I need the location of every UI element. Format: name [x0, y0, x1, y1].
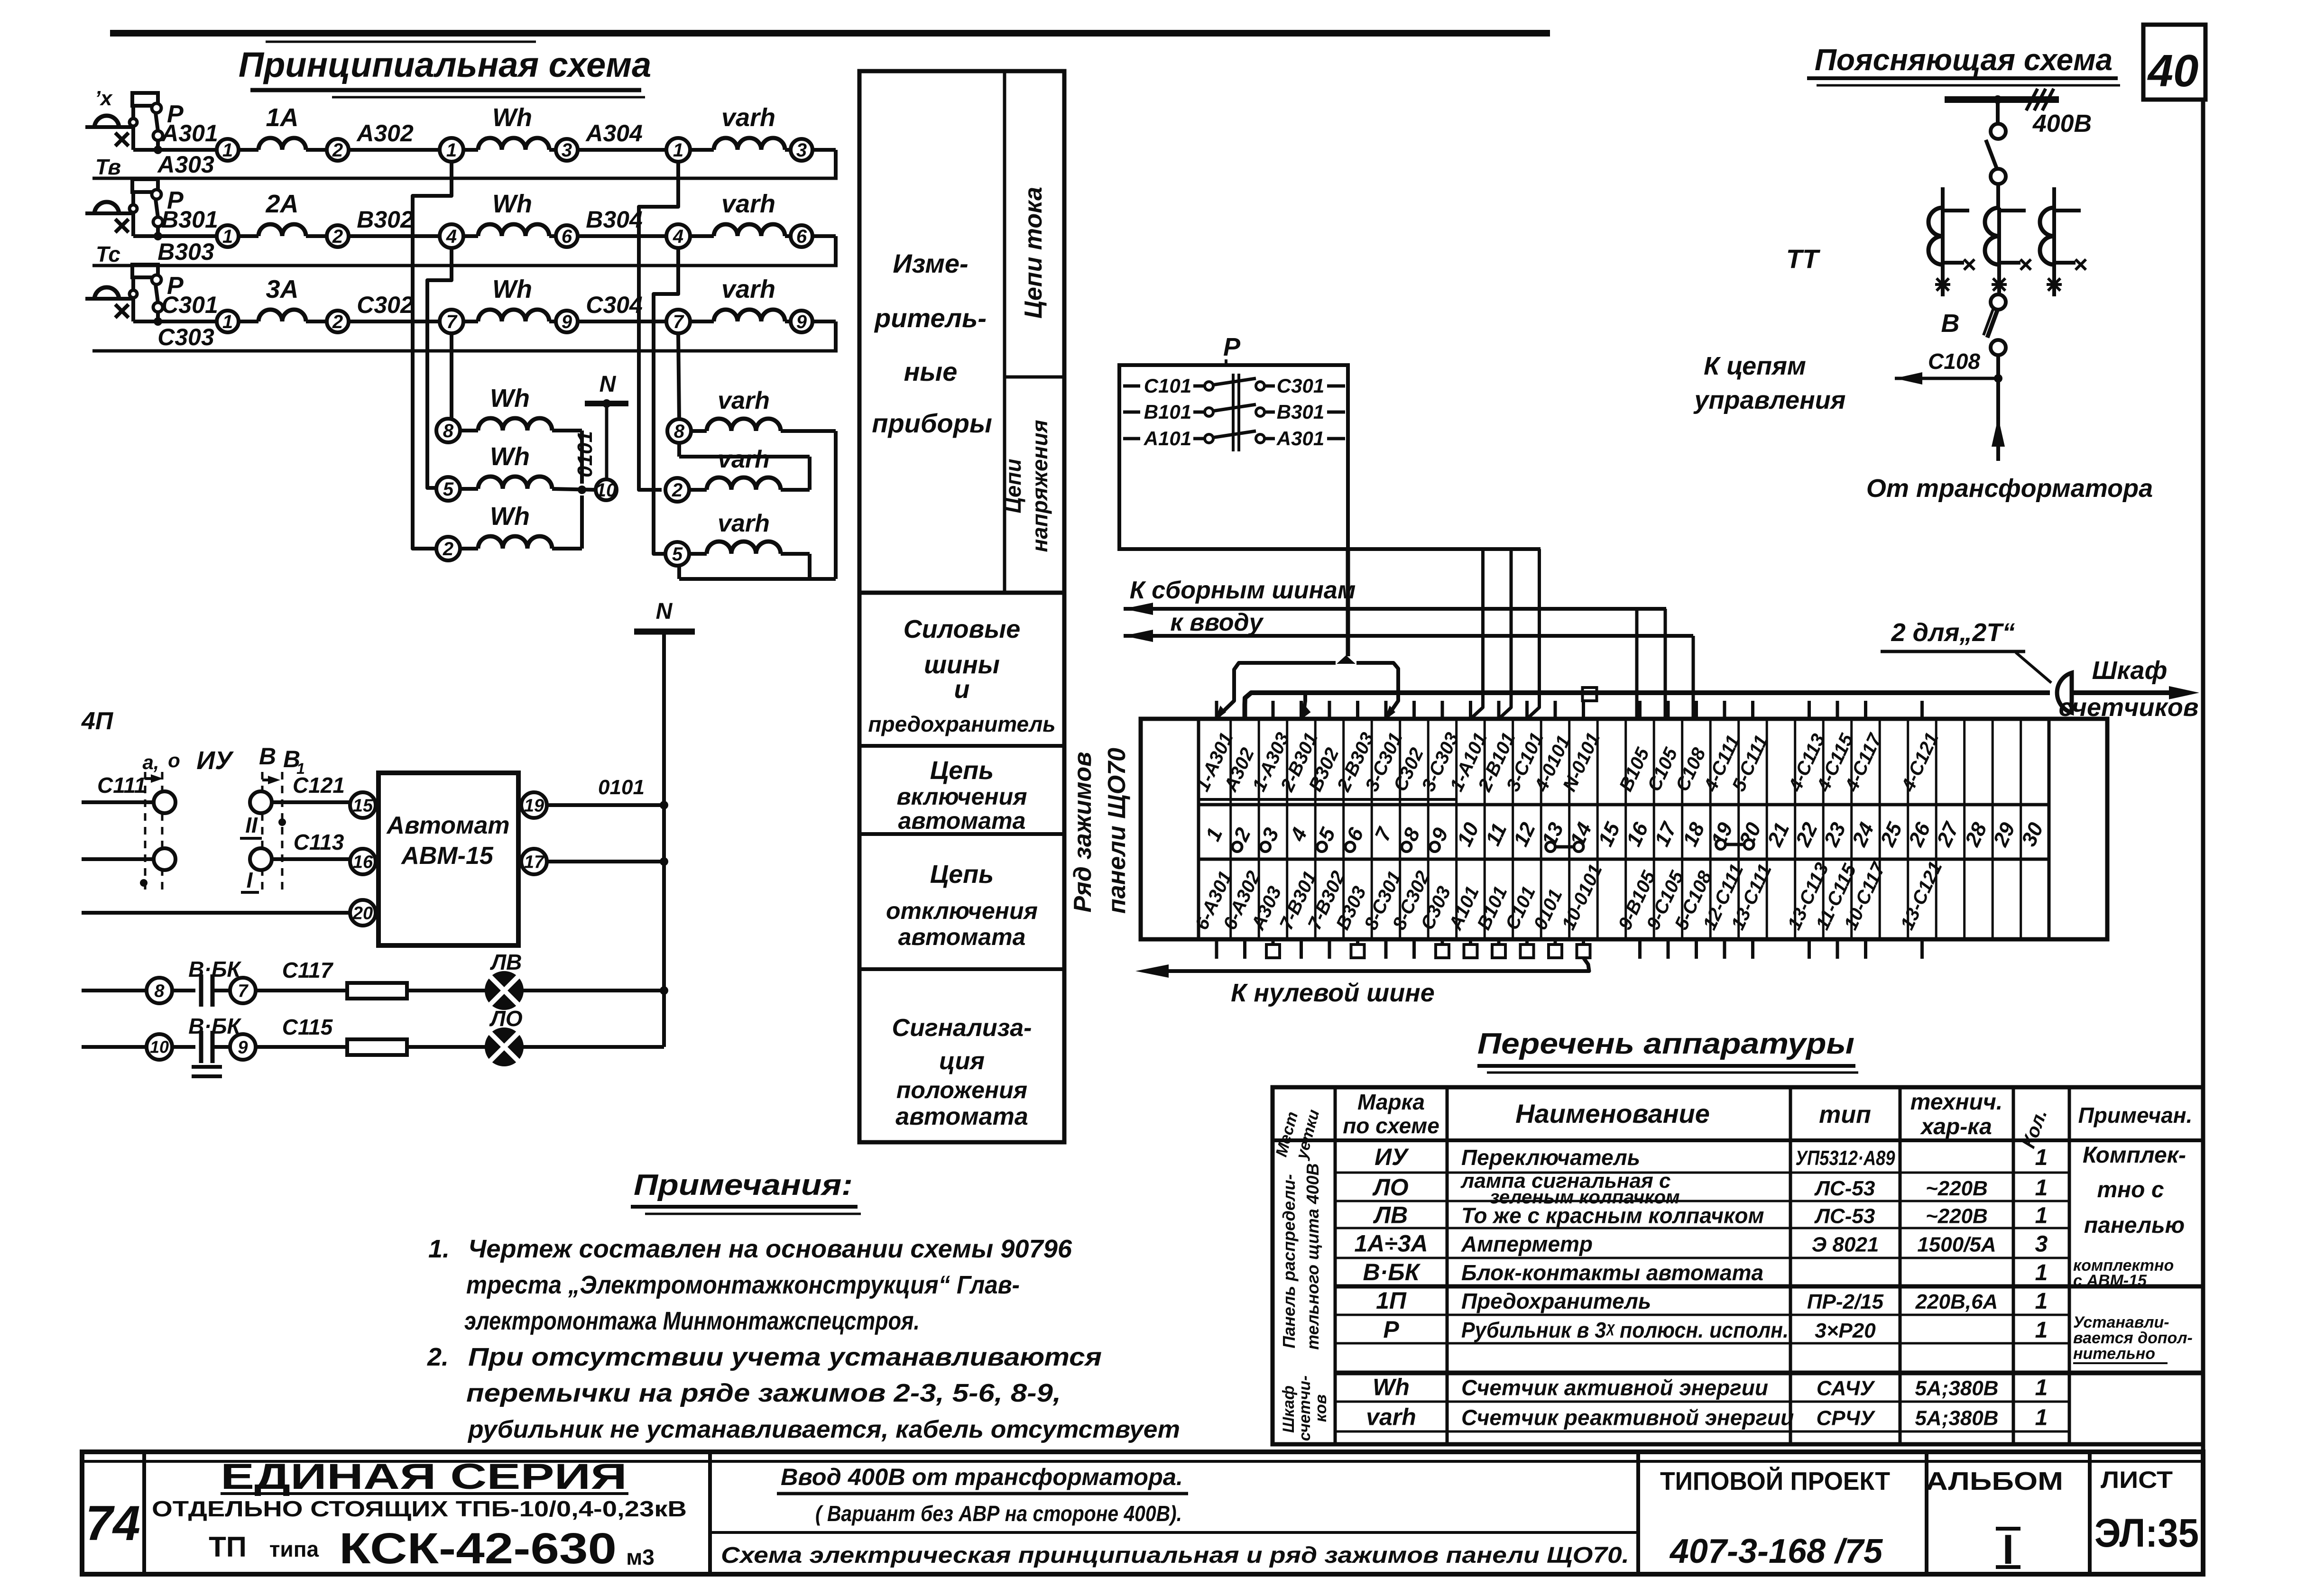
svg-text:Цепи: Цепи: [1001, 459, 1025, 513]
svg-text:2: 2: [332, 312, 343, 332]
switch contact circle row I right: [250, 848, 272, 870]
svg-text:1: 1: [222, 226, 233, 247]
wire С113 to terminal 16: [272, 857, 350, 861]
svg-text:Автомат: Автомат: [386, 812, 509, 839]
svg-text:по схеме: по схеме: [1343, 1113, 1439, 1138]
neutral bus N of control circuits: [634, 629, 695, 635]
svg-text:Рубильник в 3ᵡ полюсн. исполн.: Рубильник в 3ᵡ полюсн. исполн.: [1461, 1318, 1789, 1342]
svg-text:счетчиков: счетчиков: [2059, 693, 2199, 722]
svg-text:3: 3: [562, 140, 572, 161]
svg-text:ЛВ: ЛВ: [490, 950, 522, 974]
terminal circle 3 (varh output): [791, 139, 812, 161]
svg-text:Примечан.: Примечан.: [2078, 1103, 2193, 1128]
fuse of lamp ЛВ: [347, 983, 407, 999]
varh 8 lower stub and cross link: [677, 443, 681, 457]
svg-text:Wh: Wh: [492, 103, 532, 132]
switch box Р (рубильник): [1119, 365, 1348, 549]
equipment table row lines: [1335, 1172, 2069, 1174]
junction of Wh outputs: [578, 486, 586, 494]
svg-text:1: 1: [2035, 1145, 2048, 1170]
svg-text:ЕДИНАЯ СЕРИЯ: ЕДИНАЯ СЕРИЯ: [221, 1457, 627, 1497]
wire entry arrows at terminals 1 4 7: [1215, 706, 1226, 721]
svg-text:3×Р20: 3×Р20: [1815, 1319, 1876, 1342]
svg-text:В: В: [1941, 309, 1960, 338]
svg-text:ЭЛ:35: ЭЛ:35: [2094, 1511, 2199, 1555]
terminal circle 8: [147, 978, 172, 1003]
svg-text:ТИПОВОЙ ПРОЕКТ: ТИПОВОЙ ПРОЕКТ: [1660, 1467, 1890, 1495]
svg-text:0101: 0101: [573, 431, 597, 477]
svg-text:Счетчик активной энергии: Счетчик активной энергии: [1461, 1376, 1768, 1400]
svg-text:В304: В304: [586, 206, 643, 233]
svg-text:6: 6: [796, 226, 807, 247]
svg-text:Тс: Тс: [96, 242, 120, 266]
svg-text:АВМ-15: АВМ-15: [400, 842, 494, 870]
neutral terminal circle 10: [596, 479, 617, 500]
jumper link terminals 19-20: [1716, 840, 1725, 849]
svg-text:Wh: Wh: [490, 384, 530, 413]
svg-text:2: 2: [672, 480, 683, 501]
svg-text:положения: положения: [896, 1077, 1027, 1103]
phase row 2А: incoming feeder with CT hook: [85, 211, 134, 215]
svg-text:2 для„2Т“: 2 для„2Т“: [1891, 618, 2015, 647]
svg-text:3А: 3А: [266, 275, 298, 303]
svg-text:От трансформатора: От трансформатора: [1866, 474, 2153, 503]
svg-text:8: 8: [443, 421, 454, 441]
switch pole С101—С301: [1123, 385, 1140, 388]
terminal circle 9: [230, 1034, 256, 1060]
terminal circle 1: [217, 139, 239, 161]
svg-text:40: 40: [2147, 46, 2199, 96]
svg-text:Наименование: Наименование: [1515, 1099, 1710, 1128]
svg-text:N: N: [656, 599, 673, 624]
switch contact circle row II left: [154, 791, 175, 813]
main current wire of row 1А: [133, 148, 217, 152]
svg-text:ЛС-53: ЛС-53: [1814, 1177, 1875, 1200]
svg-text:При отсутствии учета устанавли: При отсутствии учета устанавливаются: [468, 1343, 1102, 1371]
svg-text:ʼх: ʼх: [95, 87, 113, 110]
terminal circle 7 (varh input): [666, 310, 690, 333]
signal lamp circuit ЛО (breaker open): [82, 1045, 147, 1049]
varh return wire to bus of row 1А: [812, 148, 836, 152]
node С108 to control circuits: [1996, 355, 2000, 378]
svg-text:ЛО: ЛО: [1372, 1174, 1408, 1201]
terminal circle 4 (varh input): [666, 224, 690, 248]
measuring-devices classification box: [859, 71, 1064, 1142]
svg-text:2: 2: [332, 140, 343, 161]
loom branch to terminal 4: [1303, 693, 1306, 716]
svg-text:СРЧУ: СРЧУ: [1816, 1407, 1875, 1430]
svg-text:ОТДЕЛЬНО СТОЯЩИХ ТПБ-10/0,4-0,: ОТДЕЛЬНО СТОЯЩИХ ТПБ-10/0,4-0,23кВ: [152, 1496, 687, 1521]
svg-text:407-3-168 /75: 407-3-168 /75: [1669, 1532, 1883, 1570]
svg-text:varh: varh: [721, 275, 775, 303]
svg-text:м3: м3: [626, 1545, 655, 1569]
svg-text:1: 1: [446, 140, 457, 161]
svg-text:Схема электрическая принципиал: Схема электрическая принципиальная и ряд…: [721, 1543, 1629, 1568]
svg-text:А101: А101: [1144, 427, 1191, 449]
svg-text:1: 1: [2035, 1175, 2048, 1201]
svg-text:varh: varh: [721, 103, 775, 132]
return bus wire А303: [92, 177, 838, 180]
svg-text:1500/5А: 1500/5А: [1917, 1233, 1996, 1257]
svg-text:varh: varh: [718, 510, 770, 537]
svg-text:хар-ка: хар-ка: [1919, 1114, 1992, 1139]
svg-text:С301: С301: [161, 292, 218, 318]
terminal strip band lines: [1199, 798, 1457, 801]
svg-text:А304: А304: [585, 120, 643, 147]
svg-text:Wh: Wh: [490, 502, 530, 531]
svg-text:5: 5: [672, 544, 683, 565]
switch travel arrows: [145, 777, 157, 780]
svg-text:о: о: [168, 749, 180, 771]
jumper link terminals 13-14: [1546, 842, 1555, 852]
wire from circle 4 row B to Wh meter bank (jog via x=901): [427, 248, 452, 488]
terminal circle 10: [147, 1034, 172, 1060]
junction dot below left dashed line: [140, 879, 148, 887]
neutral bus N above circle 10: [585, 401, 628, 406]
wire С115: [256, 1045, 347, 1049]
svg-text:С108: С108: [1928, 349, 1980, 374]
svg-text:треста „Электромонтажконструкц: треста „Электромонтажконструкция“ Глав-: [466, 1271, 1020, 1299]
svg-text:9: 9: [562, 312, 572, 332]
svg-text:1А÷3А: 1А÷3А: [1354, 1230, 1428, 1257]
svg-text:электромонтажа Минмонтажспецст: электромонтажа Минмонтажспецстроя.: [464, 1307, 920, 1335]
terminal circle 20: [350, 900, 376, 926]
svg-text:10: 10: [596, 480, 617, 501]
svg-text:4П: 4П: [81, 707, 114, 735]
svg-text:ПР-2/15: ПР-2/15: [1807, 1290, 1884, 1313]
switch pole А101—А301: [1123, 437, 1140, 440]
svg-text:а,: а,: [142, 751, 159, 773]
svg-text:2: 2: [443, 539, 453, 560]
svg-text:20: 20: [352, 903, 373, 923]
square hooks below terminals 3 6 9 10 11 12 13 14: [1266, 945, 1280, 958]
equipment table column lines: [1334, 1087, 1337, 1444]
svg-text:Панель распредели-: Панель распредели-: [1279, 1174, 1299, 1348]
fuse holder and knife switch Р of row 3А: [131, 299, 135, 321]
svg-text:Р: Р: [1223, 333, 1241, 361]
wire from circle 7 row C down to Wh meter 8: [450, 333, 453, 419]
svg-text:3: 3: [2035, 1232, 2048, 1257]
svg-text:1: 1: [2035, 1405, 2048, 1431]
svg-text:Поясняющая схема: Поясняющая схема: [1815, 43, 2113, 77]
switch contact circle row II right: [250, 791, 272, 813]
svg-text:С301: С301: [1277, 375, 1324, 397]
line К сборным шинам: [1124, 607, 1666, 611]
sheet top border line: [110, 30, 1550, 37]
svg-text:varh: varh: [721, 190, 775, 218]
wires from Р box to terminals 10-12 (А101 В101 С101): [1119, 547, 1541, 551]
svg-text:Ряд зажимов: Ряд зажимов: [1069, 752, 1097, 912]
changeover switch ИУ dashed lines: [144, 772, 147, 890]
svg-text:ИУ: ИУ: [196, 746, 234, 775]
terminal circle 16: [350, 849, 376, 874]
svg-text:Принципиальная схема: Принципиальная схема: [239, 45, 651, 84]
terminal circle 7 (Wh input): [440, 310, 463, 333]
svg-text:К нулевой шине: К нулевой шине: [1231, 979, 1435, 1007]
svg-text:типа: типа: [269, 1537, 319, 1561]
svg-text:тип: тип: [1819, 1101, 1871, 1128]
svg-text:В: В: [259, 743, 276, 770]
svg-text:ТП: ТП: [209, 1531, 247, 1563]
svg-text:включения: включения: [896, 783, 1027, 810]
svg-text:тельного щита 400В: тельного щита 400В: [1303, 1163, 1322, 1350]
feed loom from Р box to terminals 1-9: [1346, 549, 1350, 656]
terminal circle 1: [217, 225, 239, 247]
svg-text:шины: шины: [924, 651, 1000, 679]
section: Цепь включения автомата: [859, 832, 1064, 836]
signal lamp circuit ЛВ (breaker closed): [82, 989, 147, 992]
svg-text:5А;380В: 5А;380В: [1915, 1407, 1998, 1430]
svg-text:В301: В301: [1277, 401, 1324, 423]
svg-text:перемычки на ряде зажимов 2-3,: перемычки на ряде зажимов 2-3, 5-6, 8-9,: [466, 1379, 1061, 1407]
terminal circle 4 (Wh input): [440, 224, 463, 248]
wire from circle 1 row A varh to varh bank (jog via x=1347): [639, 162, 678, 490]
svg-text:С101: С101: [1144, 375, 1191, 397]
svg-text:Переключатель: Переключатель: [1461, 1145, 1640, 1170]
svg-text:Цепь: Цепь: [930, 756, 994, 785]
svg-text:19: 19: [524, 796, 544, 816]
svg-text:16: 16: [353, 852, 373, 872]
busbar 400В: [1945, 96, 2059, 103]
svg-text:ция: ция: [939, 1047, 985, 1075]
svg-text:С111: С111: [97, 773, 146, 798]
svg-text:~220В: ~220В: [1926, 1205, 1988, 1228]
svg-text:Р: Р: [1383, 1316, 1399, 1343]
svg-text:1: 1: [2035, 1376, 2048, 1401]
sheet right border line: [2201, 100, 2205, 1452]
phase row 3А: incoming feeder with CT hook: [85, 297, 134, 301]
svg-text:ритель-: ритель-: [874, 303, 987, 333]
wire 0101 from terminal 19 to neutral rail: [547, 803, 664, 807]
svg-text:В·БК: В·БК: [1363, 1259, 1421, 1285]
section: Силовые шины и предохранитель: [859, 744, 1064, 748]
svg-text:технич.: технич.: [1910, 1090, 2002, 1115]
varh meter coil with terminal 2: [665, 478, 689, 502]
svg-text:панели ЩО70: панели ЩО70: [1103, 748, 1131, 914]
svg-text:В303: В303: [157, 238, 214, 265]
Wh meter coil with terminal 2: [436, 537, 460, 560]
svg-text:автомата: автомата: [895, 1103, 1028, 1130]
svg-text:Комплек-: Комплек-: [2083, 1143, 2186, 1168]
terminal circle 2: [327, 225, 349, 247]
svg-text:1: 1: [222, 312, 233, 332]
svg-text:Марка: Марка: [1357, 1090, 1425, 1114]
terminal circle 2: [327, 139, 349, 161]
svg-text:В301: В301: [161, 206, 218, 233]
svg-text:ЛС-53: ЛС-53: [1814, 1205, 1875, 1228]
terminal strip outer box: [1141, 719, 2107, 939]
varh return wire to bus of row 3А: [812, 320, 836, 323]
terminal circle 7: [230, 978, 256, 1003]
switch contact circle row I left: [154, 848, 175, 870]
svg-text:Сигнализа-: Сигнализа-: [892, 1014, 1032, 1042]
svg-text:Изме-: Изме-: [893, 248, 968, 278]
svg-text:0101: 0101: [598, 776, 645, 799]
svg-text:9: 9: [238, 1037, 248, 1057]
svg-text:УП5312·А89: УП5312·А89: [1796, 1147, 1895, 1170]
connector symbol to meter cabinet: [2057, 673, 2072, 713]
section: Цепь отключения автомата: [859, 967, 1064, 971]
svg-text:нительно: нительно: [2073, 1345, 2155, 1363]
terminal circle 6 (varh output): [791, 225, 812, 247]
varh meter coil with terminal 8: [667, 419, 691, 443]
svg-text:А301: А301: [160, 120, 218, 147]
terminal circle 9 (varh output): [791, 311, 812, 332]
wire С117: [256, 989, 347, 992]
svg-text:1: 1: [2035, 1318, 2048, 1343]
breaker В below transformers: [1997, 208, 2001, 294]
svg-text:~220В: ~220В: [1926, 1177, 1988, 1200]
svg-text:Силовые: Силовые: [904, 615, 1021, 643]
wire from circle 7 row C varh down to varh meter 8: [678, 333, 679, 419]
svg-text:В101: В101: [1144, 401, 1191, 423]
svg-text:ков: ков: [1312, 1394, 1330, 1422]
svg-text:автомата: автомата: [898, 807, 1026, 834]
svg-text:5А;380В: 5А;380В: [1915, 1377, 1998, 1400]
svg-text:ТТ: ТТ: [1786, 244, 1821, 274]
terminal circle 1 (Wh input): [440, 138, 463, 162]
junction dot on В1 dashed line: [278, 818, 286, 826]
wire from terminal 17 to neutral rail: [547, 860, 664, 863]
svg-text:Шкаф: Шкаф: [2092, 656, 2168, 685]
fuse of lamp ЛО: [347, 1039, 407, 1055]
svg-text:400В: 400В: [2032, 110, 2092, 138]
svg-text:С115: С115: [282, 1015, 333, 1039]
svg-text:к вводу: к вводу: [1170, 609, 1264, 636]
svg-text:Цепь: Цепь: [930, 860, 994, 889]
svg-text:Wh: Wh: [490, 442, 530, 471]
terminal circle 15: [350, 792, 376, 818]
svg-text:4: 4: [673, 226, 683, 247]
svg-text:1: 1: [2035, 1289, 2048, 1314]
divider of current/voltage circuits column: [1003, 71, 1006, 593]
line к вводу: [1124, 634, 1693, 638]
svg-text:8: 8: [154, 981, 165, 1001]
wire С121 from switch to terminal 15: [272, 800, 350, 804]
varh return wire to bus of row 2А: [812, 234, 836, 238]
svg-text:Блок-контакты автомата: Блок-контакты автомата: [1461, 1260, 1763, 1285]
title block cell dividers: [142, 1452, 146, 1574]
svg-text:( Вариант без АВР на сторон: ( Вариант без АВР на стороне 400В).: [815, 1501, 1182, 1526]
svg-text:1: 1: [222, 140, 233, 161]
terminal circle 6 (Wh output): [556, 225, 578, 247]
svg-text:varh: varh: [718, 446, 770, 473]
title block outer box: [82, 1452, 2203, 1574]
wire stubs below terminal strip: [1215, 939, 1218, 959]
svg-text:1: 1: [2035, 1203, 2048, 1229]
svg-text:Амперметр: Амперметр: [1461, 1232, 1593, 1257]
vertical neutral rail 0101: [662, 632, 666, 1047]
svg-text:II: II: [245, 813, 258, 837]
svg-text:3: 3: [796, 140, 807, 161]
loom bracket to terminal 1: [1218, 663, 1336, 716]
svg-text:1А: 1А: [266, 103, 298, 132]
svg-text:varh: varh: [1366, 1404, 1416, 1431]
svg-text:1: 1: [2035, 1260, 2048, 1285]
terminal circle 17: [521, 849, 547, 874]
wire stubs above terminal strip: [1215, 701, 1218, 719]
sheet number box 40: [2143, 25, 2205, 100]
svg-text:1.: 1.: [428, 1235, 450, 1263]
svg-text:САЧУ: САЧУ: [1817, 1377, 1875, 1400]
svg-text:1: 1: [673, 140, 683, 161]
svg-text:7: 7: [446, 312, 458, 332]
svg-text:5: 5: [443, 479, 454, 500]
svg-text:К сборным шинам: К сборным шинам: [1130, 577, 1356, 604]
svg-text:2.: 2.: [427, 1343, 449, 1371]
wire into lower switch contact: [82, 857, 154, 861]
jumper holes in terminals 2 3 5 6 8 9: [1233, 842, 1242, 852]
svg-text:74: 74: [85, 1496, 140, 1551]
wire from circle 1 row A to Wh meter bank (jog via x=870): [413, 162, 452, 549]
fuse holder and knife switch Р of row 2А: [131, 213, 135, 236]
line К нулевой шине from terminal 14: [1168, 958, 1589, 971]
svg-text:С117: С117: [282, 958, 334, 982]
svg-text:220В,6А: 220В,6А: [1915, 1290, 1998, 1313]
svg-text:4: 4: [446, 226, 457, 247]
svg-text:Ввод 400В от трансформатора.: Ввод 400В от трансформатора.: [781, 1464, 1183, 1490]
circuit breaker block Автомат АВМ-15: [378, 773, 518, 945]
feeder from transformer with up arrow: [1996, 378, 2000, 461]
svg-text:Тв: Тв: [95, 155, 121, 179]
main current wire of row 2А: [133, 234, 217, 238]
svg-text:АЛЬБОМ: АЛЬБОМ: [1926, 1467, 2063, 1495]
svg-text:ИУ: ИУ: [1375, 1144, 1410, 1170]
svg-text:панелью: панелью: [2084, 1213, 2185, 1238]
svg-text:Шкаф: Шкаф: [1280, 1385, 1298, 1433]
svg-text:ные: ные: [904, 357, 958, 386]
terminal circle 1 (varh input): [666, 138, 690, 162]
terminal circle 2: [327, 311, 349, 332]
svg-text:Wh: Wh: [492, 190, 532, 218]
loom bracket to terminal 7: [1356, 663, 1398, 716]
svg-text:17: 17: [524, 852, 545, 872]
svg-text:I: I: [247, 868, 253, 892]
svg-text:Цепи тока: Цепи тока: [1020, 187, 1047, 319]
varh series loop right side: [834, 431, 838, 579]
svg-text:А302: А302: [356, 120, 414, 147]
svg-text:В302: В302: [357, 206, 414, 233]
svg-text:С113: С113: [294, 830, 344, 854]
switch pole В101—В301: [1123, 411, 1140, 414]
svg-text:8: 8: [674, 421, 685, 442]
square hook on terminal 14 stub: [1583, 688, 1597, 701]
svg-text:А301: А301: [1276, 427, 1324, 449]
svg-text:2: 2: [332, 226, 343, 247]
svg-text:счетчи-: счетчи-: [1296, 1376, 1314, 1441]
terminal circle 1: [217, 311, 239, 332]
disconnector on 400V busbar: [1996, 100, 2000, 124]
svg-text:ЛО: ЛО: [489, 1006, 523, 1031]
svg-text:управления: управления: [1693, 386, 1846, 414]
svg-text:7: 7: [238, 981, 249, 1001]
varh meter coil with terminal 5: [665, 542, 689, 566]
svg-text:и: и: [954, 675, 970, 704]
wire С111 into switch: [82, 800, 154, 804]
svg-text:тно с: тно с: [2097, 1177, 2164, 1202]
svg-text:автомата: автомата: [898, 924, 1026, 950]
wire into terminal 20: [82, 911, 350, 915]
svg-text:С121: С121: [293, 773, 345, 798]
return bus wire С303: [92, 349, 838, 353]
svg-text:КСК-42-630: КСК-42-630: [339, 1524, 617, 1573]
svg-text:Предохранитель: Предохранитель: [1461, 1289, 1651, 1313]
terminal column dividers: [1229, 719, 1232, 939]
main current wire of row 3А: [133, 320, 217, 323]
svg-text:N: N: [600, 372, 617, 397]
svg-text:напряжения: напряжения: [1027, 420, 1052, 552]
svg-text:6: 6: [562, 226, 572, 247]
